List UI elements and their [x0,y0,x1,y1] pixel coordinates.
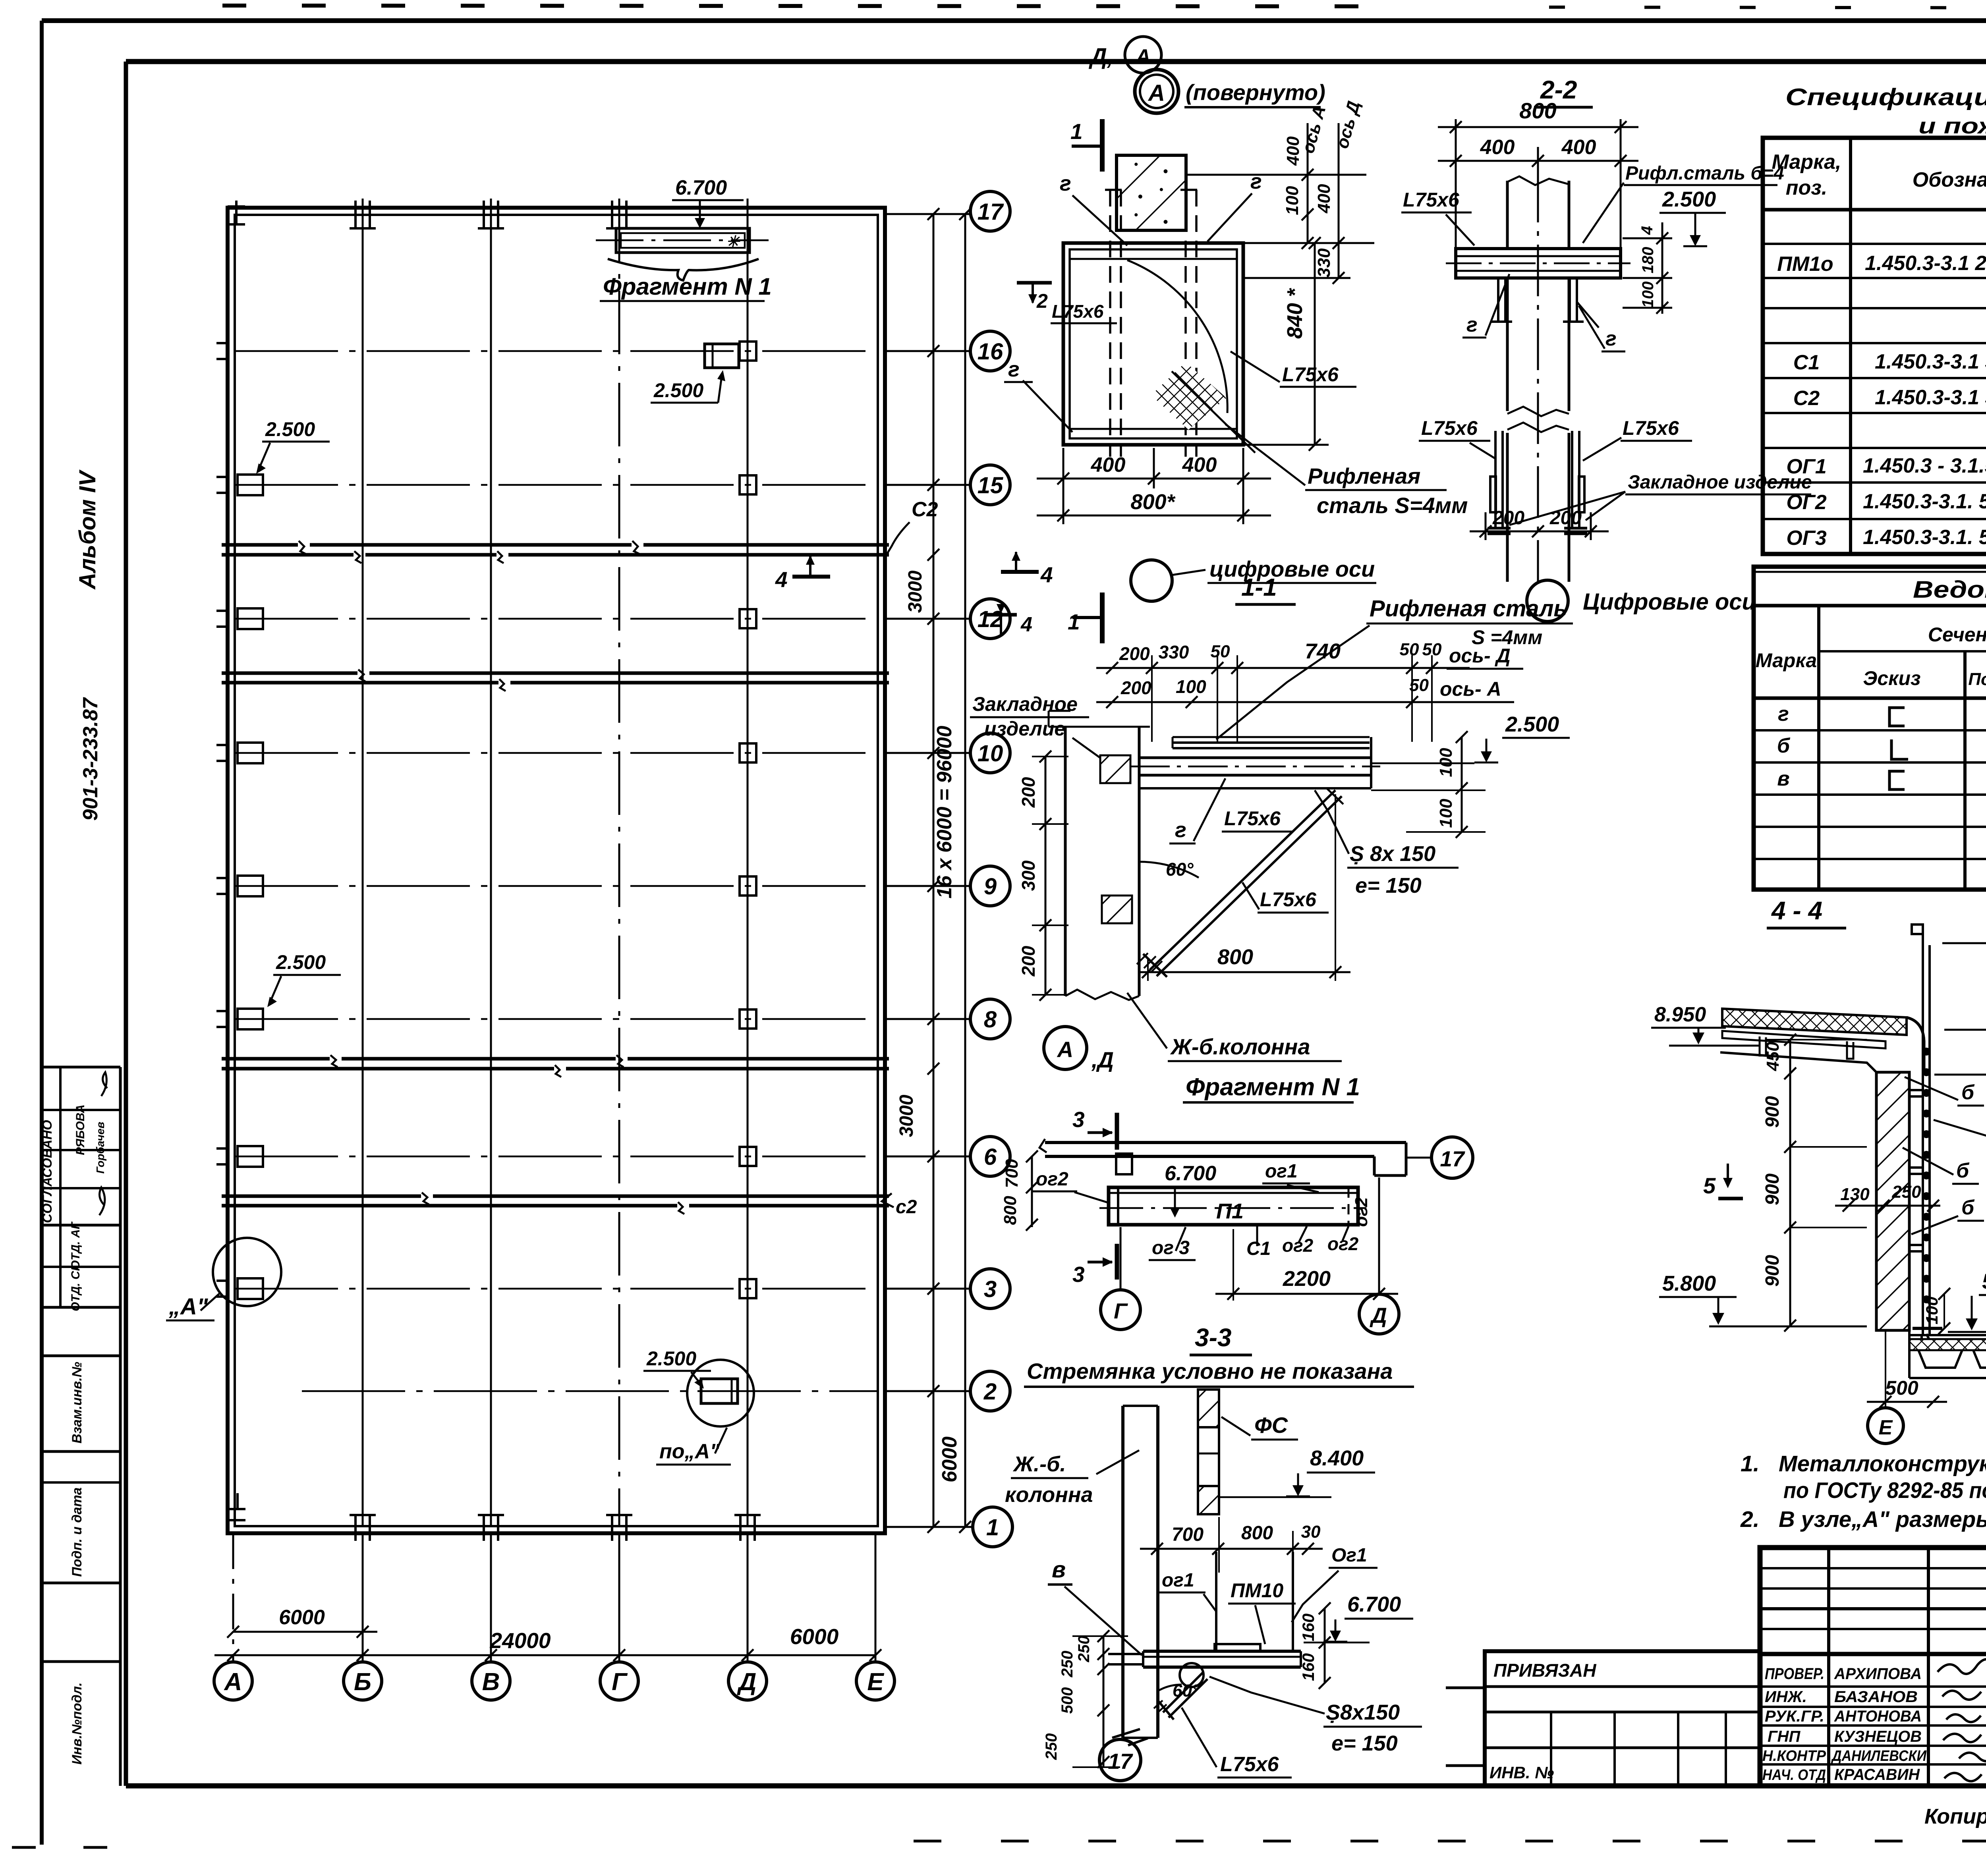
net hatch patch [1151,362,1227,430]
top wall column marks [228,201,632,228]
svg-text:Г: Г [1114,1299,1128,1323]
svg-text:200: 200 [1119,643,1150,664]
svg-text:200: 200 [1549,508,1582,529]
circle 17 fragment [1432,1137,1473,1178]
svg-text:100: 100 [1283,186,1302,215]
svg-text:6000: 6000 [790,1624,839,1649]
S8x150 label 1-1 [1315,790,1459,897]
clamp circle 3-3 [1180,1663,1204,1687]
Jb kolonna label [1127,993,1342,1061]
bottom dim line 24000 [214,1649,881,1661]
svg-text:6000: 6000 [279,1606,325,1629]
svg-text:1.450.3-3.1. 5.1.0.1.0-09: 1.450.3-3.1. 5.1.0.1.0-09 [1863,526,1986,549]
9.100 elevation [1944,967,1986,1030]
svg-text:сталь S=4мм: сталь S=4мм [1317,493,1468,518]
platform 6.700 3-3 [1108,1644,1301,1667]
svg-text:L75х6: L75х6 [1052,301,1104,322]
8.950 elevation [1651,1003,1760,1046]
g labels 2-2 [1462,274,1625,351]
row center lines [235,351,878,1391]
top beam fragment [1039,1139,1432,1175]
svg-text:180: 180 [1639,247,1657,274]
svg-text:Цифровые оси: Цифровые оси [1583,589,1756,615]
strut 3-3 [1154,1673,1207,1720]
riflenaya stal label [1172,371,1468,518]
svg-text:ИНЖ.: ИНЖ. [1765,1688,1807,1706]
dim 2200 [1215,1229,1398,1301]
section mark 4 left [775,555,830,592]
8.400 elevation [1220,1446,1375,1497]
svg-text:Е: Е [1879,1416,1893,1439]
svg-text:Альбом IV: Альбом IV [75,469,100,590]
svg-text:А: А [1057,1037,1073,1062]
svg-text:ПРИВЯЗАН: ПРИВЯЗАН [1493,1660,1596,1681]
svg-text:100: 100 [1922,1297,1941,1324]
svg-text:колонна: колонна [1005,1483,1093,1507]
svg-text:1: 1 [1070,119,1083,144]
svg-text:Копировал:: Копировал: [1924,1805,1986,1828]
svg-text:2200: 2200 [1283,1267,1331,1291]
svg-text:2.500: 2.500 [653,379,703,401]
bottom wall column marks [230,1493,761,1541]
svg-text:б: б [1956,1159,1970,1182]
section 3-3 title [1190,1323,1252,1355]
svg-text:9: 9 [984,874,997,899]
section mark 2 left [1017,283,1117,323]
svg-text:г: г [1466,313,1478,336]
svg-text:1: 1 [1068,610,1080,634]
svg-text:Ог1: Ог1 [1331,1545,1367,1566]
svg-text:(повернуто): (повернуто) [1186,80,1325,105]
svg-text:2.500: 2.500 [1662,187,1716,211]
svg-text:800: 800 [1001,1196,1020,1225]
svg-text:Металлоконструкции покрасить м: Металлоконструкции покрасить масляной кр… [1779,1451,1986,1476]
svg-text:2: 2 [1036,290,1048,312]
svg-text:Д,: Д, [1088,44,1113,69]
ladder foot [1913,1328,1942,1345]
svg-text:3: 3 [1072,1107,1085,1132]
svg-text:ось- Д: ось- Д [1449,645,1511,667]
svg-text:30: 30 [1301,1522,1321,1542]
svg-text:ог2: ог2 [1352,1197,1371,1227]
svg-text:Н.КОНТР: Н.КОНТР [1762,1748,1826,1764]
5.550 elevation [1948,1270,1986,1332]
svg-text:200: 200 [1492,508,1524,529]
svg-text:ОГ1: ОГ1 [1786,455,1826,478]
strut 1-1 [1137,788,1343,977]
svg-text:с2: с2 [896,1197,917,1218]
svg-text:L75х6: L75х6 [1623,417,1679,439]
zakladnoe izdelie 1-1 [970,693,1112,766]
svg-text:С1: С1 [1793,351,1820,374]
svg-text:160: 160 [1299,1614,1318,1641]
band break zigzags [299,541,684,1214]
svg-text:500: 500 [1885,1377,1918,1399]
svg-text:АРХИПОВА: АРХИПОВА [1834,1665,1922,1683]
svg-text:1: 1 [986,1515,999,1540]
svg-text:г: г [1008,357,1020,381]
svg-text:ПРОВЕР.: ПРОВЕР. [1765,1665,1824,1683]
svg-text:Д: Д [1370,1303,1387,1328]
svg-text:6.700: 6.700 [1165,1162,1216,1185]
svg-text:L75х6: L75х6 [1403,189,1460,211]
svg-text:Подп. и дата: Подп. и дата [70,1487,85,1577]
small column on beam [1116,1154,1132,1174]
svg-text:ось- А: ось- А [1440,678,1501,700]
privyazan box [1446,1651,1760,1786]
svg-text:1.450.3-3.1 2.1.1.0.0-37: 1.450.3-3.1 2.1.1.0.0-37 [1865,252,1986,275]
extension lines 1-1 [1152,655,1432,742]
g labels detail A [1004,170,1262,432]
svg-text:200: 200 [1121,677,1151,698]
spec rows [1777,216,1986,551]
svg-text:Фрагмент N 1: Фрагмент N 1 [1186,1073,1360,1101]
svg-text:А: А [1148,80,1165,106]
svg-text:4 - 4: 4 - 4 [1771,896,1822,925]
svg-text:L75х6: L75х6 [1220,1753,1279,1776]
svg-text:2.: 2. [1740,1507,1760,1532]
160 160 dims 3-3 [1319,1602,1331,1689]
2.500 label row8 [267,951,341,1007]
og1 left label 3-3 [1159,1570,1216,1612]
svg-text:6.700: 6.700 [675,176,727,199]
svg-text:2.500: 2.500 [1505,712,1559,736]
svg-text:50: 50 [1211,642,1230,661]
svg-text:2.500: 2.500 [276,951,326,973]
wall 4-4 [1876,1072,1909,1330]
svg-text:цифровые оси: цифровые оси [1209,556,1375,581]
svg-text:ог2: ог2 [1327,1233,1359,1254]
svg-text:500: 500 [1059,1687,1076,1714]
double line bands with breaks [222,545,889,1206]
svg-text:800*: 800* [1130,490,1176,514]
svg-text:КУЗНЕЦОВ: КУЗНЕЦОВ [1834,1728,1922,1745]
svg-text:400: 400 [1091,454,1126,477]
svg-text:Д: Д [737,1668,757,1696]
svg-text:400: 400 [1314,184,1334,214]
svg-text:по„А": по„А" [659,1440,720,1463]
svg-text:В узле„А" размеры со звездочко: В узле„А" размеры со звездочкой уточняют… [1779,1507,1986,1532]
2.500 elev 1-1 [1371,712,1570,763]
spec table title [1785,84,1986,138]
svg-text:ПМ1о: ПМ1о [1777,253,1833,276]
vertical dim line x2350 [927,208,939,1533]
dim row2 1-1 [1096,696,1454,708]
svg-text:1.450.3 - 3.1.5.1.0.1.0-13: 1.450.3 - 3.1.5.1.0.1.0-13 [1863,454,1986,477]
svg-text:840 *: 840 * [1283,288,1307,339]
dims below detail A [1037,448,1271,524]
svg-text:ог1: ог1 [1265,1161,1298,1182]
v label 3-3 [1048,1557,1142,1655]
svg-text:✳: ✳ [726,233,741,251]
hidden post lines [1105,190,1201,457]
svg-text:ГНП: ГНП [1768,1728,1801,1745]
svg-text:8.400: 8.400 [1310,1446,1364,1470]
g / L75x6 labels 1-1 [1169,778,1329,913]
eskiz profile glyphs [1889,708,1908,789]
60 deg arc 1-1 [1139,859,1199,880]
svg-text:200: 200 [1018,777,1039,808]
svg-text:16: 16 [978,339,1003,365]
6.700 platform fragment zone [596,176,772,301]
svg-text:2.500: 2.500 [646,1347,696,1370]
svg-text:300: 300 [1018,860,1039,891]
svg-text:Обозначение: Обозначение [1913,168,1986,191]
D,(A) label top [1088,37,1161,73]
svg-text:б: б [1777,734,1791,757]
svg-text:8: 8 [984,1007,997,1033]
svg-text:ог 3: ог 3 [1152,1237,1190,1258]
center axis dashdot [1537,171,1539,582]
svg-text:Инв.№подл.: Инв.№подл. [70,1682,85,1764]
svg-text:б: б [1961,1081,1975,1104]
svg-text:3: 3 [984,1276,997,1302]
svg-text:10: 10 [978,741,1003,766]
svg-text:Эскиз: Эскиз [1863,667,1920,689]
svg-text:8.950: 8.950 [1654,1003,1706,1026]
svg-text:С2: С2 [1793,387,1820,410]
signature table texts [1762,1665,1927,1783]
left margin column [42,1067,120,1786]
svg-text:Поз.: Поз. [1968,670,1986,689]
svg-text:ОГ2: ОГ2 [1786,491,1826,514]
margin vertical texts [40,469,106,1765]
cifrovye osi circle detail A [1131,556,1376,601]
svg-text:1-1: 1-1 [1241,574,1277,601]
2.500 elevation mark [1660,187,1726,246]
svg-text:ИНВ. №: ИНВ. № [1489,1763,1554,1782]
svg-text:15: 15 [978,473,1003,498]
svg-text:17: 17 [978,199,1004,225]
svg-text:ОТД. АГ: ОТД. АГ [69,1221,82,1270]
lower angles 2-2 [1488,431,1587,534]
svg-text:5.800: 5.800 [1662,1272,1716,1295]
svg-text:П1: П1 [1216,1199,1244,1223]
svg-text:400: 400 [1480,136,1515,159]
svg-text:С2: С2 [912,498,938,521]
column with break 2-2 [1507,278,1569,582]
svg-text:700: 700 [1172,1524,1204,1545]
zakladnoe izdelie label [1509,472,1812,525]
vertical dim line x2430 overall [959,208,971,1533]
svg-text:б: б [1961,1196,1975,1219]
svg-text:e= 150: e= 150 [1331,1731,1398,1755]
svg-text:700: 700 [1002,1159,1022,1188]
svg-text:Спецификация к схеме распол: Спецификация к схеме расположения площад… [1785,84,1986,110]
2.500 label row15 [256,418,330,474]
plan walls [228,208,885,1533]
svg-text:Ṣ8х150: Ṣ8х150 [1326,1700,1400,1724]
left dim column 4-4 [1767,1034,1867,1332]
og1 right label 3-3 [1292,1545,1377,1622]
detail 2-2 title [1534,75,1593,107]
notes [1740,1451,1986,1532]
10.150 elevation [1942,880,1986,943]
130 250 dims 4-4 [1835,1200,1940,1212]
left dims 200/300/200 1-1 [1032,751,1068,1001]
svg-text:Сечение: Сечение [1928,623,1986,646]
svg-text:100: 100 [1436,748,1456,777]
svg-text:3000: 3000 [905,570,926,613]
L75x6 right label [1231,351,1356,387]
riflenaya stal label 1-1 [1216,596,1573,739]
svg-text:СОГЛАСОВАНО: СОГЛАСОВАНО [40,1120,54,1223]
svg-text:12: 12 [978,606,1003,632]
svg-text:Стремянка условно не показана: Стремянка условно не показана [1027,1359,1393,1384]
fragment title [1183,1073,1360,1102]
svg-text:5.550: 5.550 [1982,1270,1986,1293]
subtitle 3-3 [1024,1359,1414,1387]
svg-text:1.450.3-3.1 3.1.0.1,0-02: 1.450.3-3.1 3.1.0.1,0-02 [1875,350,1986,373]
ladder brackets [1909,1090,1923,1251]
svg-text:400: 400 [1561,136,1596,159]
spec header texts [1772,151,1986,199]
svg-text:e= 150: e= 150 [1355,874,1422,897]
A,D circle 1-1 [1044,1027,1114,1072]
svg-text:Ведомость элементов: Ведомость элементов [1913,576,1986,603]
svg-text:РУК.ГР.: РУК.ГР. [1765,1708,1824,1725]
svg-text:60°: 60° [1173,1681,1199,1700]
2.500 platform at D row16 [651,344,739,403]
L75x6 label 3-3 [1182,1708,1292,1778]
S8x150 label 3-3 [1209,1677,1422,1755]
svg-text:РЯБОВА: РЯБОВА [74,1104,87,1155]
svg-text:250: 250 [1891,1182,1921,1202]
upper angle cleats [1491,278,1599,328]
svg-text:100: 100 [1436,799,1456,828]
svg-text:в: в [1777,767,1789,790]
svg-text:250: 250 [1043,1733,1060,1760]
dims 200 200 [1470,512,1609,540]
svg-text:Марка,: Марка, [1772,151,1841,174]
svg-text:ог1: ог1 [1162,1570,1194,1591]
svg-text:4: 4 [775,567,788,592]
section 5 marks [1703,1164,1743,1199]
svg-text:330: 330 [1314,248,1334,278]
cifrovye osi circle 2-2 [1527,580,1756,621]
svg-text:250: 250 [1075,1636,1093,1663]
svg-text:100: 100 [1176,676,1206,697]
platform band 2-2 [1446,249,1631,278]
column 1-1 [1049,711,1150,1000]
svg-text:,Д: ,Д [1091,1047,1114,1072]
L75x6 left label [1401,189,1474,245]
svg-text:130: 130 [1840,1185,1870,1204]
circled row numbers [970,191,1012,1547]
svg-text:L75х6: L75х6 [1260,888,1317,911]
dim row1 1-1 [1096,662,1470,674]
vedomost table [1754,567,1986,890]
svg-text:4: 4 [1040,562,1053,587]
bottom floor slab 4-4 [1909,1330,1986,1378]
svg-text:ОГ3: ОГ3 [1786,527,1826,550]
svg-text:901-3-233.87: 901-3-233.87 [79,697,102,820]
svg-text:Рифл.сталь б=4: Рифл.сталь б=4 [1625,163,1784,184]
svg-text:А: А [224,1668,242,1696]
svg-text:ПМ10: ПМ10 [1231,1579,1283,1602]
svg-text:50: 50 [1400,640,1419,659]
svg-text:А: А [1135,45,1151,68]
section mark 4 bottom-left [985,604,1032,636]
svg-text:250: 250 [1059,1651,1076,1678]
platform plan square [1063,243,1243,445]
section mark 4 right [1001,551,1053,587]
axis G vertical [618,199,620,1526]
axis D vertical [747,199,749,1526]
5.800 elevation [1659,1272,1867,1326]
svg-text:800: 800 [1241,1523,1273,1544]
og3 label [1149,1227,1196,1260]
svg-text:изделие: изделие [984,718,1065,740]
og1 top label [1262,1161,1319,1192]
bottom dim 6000 A-B [227,1626,377,1638]
svg-text:900: 900 [1762,1173,1783,1205]
svg-text:6.700: 6.700 [1347,1592,1401,1616]
svg-text:Рифленая: Рифленая [1308,463,1420,488]
svg-text:Е: Е [867,1668,884,1696]
svg-text:L75х6: L75х6 [1421,417,1478,439]
svg-text:в: в [1052,1557,1066,1583]
FS element [1198,1390,1219,1514]
svg-text:2: 2 [983,1379,997,1405]
svg-text:и пожарной лестницы .: и пожарной лестницы . [1918,113,1986,138]
section mark 3 top [1072,1107,1117,1150]
title block outer [1760,1548,1986,1786]
po A platform row2 [643,1347,754,1465]
ladder 4-4 [1912,924,1930,1334]
section mark 3 bottom [1072,1244,1117,1287]
svg-text:900: 900 [1762,1255,1783,1287]
svg-text:г: г [1605,327,1617,350]
section 4-4 title [1767,896,1846,928]
svg-text:740: 740 [1305,639,1341,663]
svg-text:ДАНИЛЕВСКИ: ДАНИЛЕВСКИ [1831,1748,1926,1764]
svg-text:L75х6: L75х6 [1224,807,1281,830]
embedded plates 1-1 [1100,755,1130,783]
svg-text:Ж-б.колонна: Ж-б.колонна [1170,1034,1310,1059]
right small dims 2-2 [1623,222,1672,314]
6.700 elevation right 3-3 [1304,1592,1413,1642]
svg-text:900: 900 [1762,1096,1783,1128]
A-node circle row3 [166,1238,281,1320]
spec table grid [1763,138,1986,554]
axis extensions below plan [233,1533,875,1662]
svg-text:16 х 6000 = 96000: 16 х 6000 = 96000 [933,726,956,898]
detail A header circle [1135,69,1325,113]
svg-text:24000: 24000 [490,1628,551,1653]
svg-text:Ж.-б.: Ж.-б. [1012,1452,1066,1476]
svg-text:L75х6: L75х6 [1282,363,1339,386]
rails 3-3 [1216,1552,1293,1651]
platform P1 [1099,1187,1366,1225]
svg-text:КРАСАВИН: КРАСАВИН [1834,1766,1920,1783]
svg-text:3: 3 [1072,1262,1085,1287]
svg-text:Б: Б [354,1668,371,1696]
row stubs to circles [885,214,973,1527]
PM10 label [1228,1579,1296,1644]
column 3-3 [1112,1406,1158,1738]
svg-text:г: г [1250,170,1262,193]
svg-text:Марка: Марка [1756,649,1817,672]
rifl stal b=4 label [1583,163,1784,243]
svg-text:г: г [1175,818,1186,842]
svg-text:Горбачев: Горбачев [94,1122,106,1174]
roof slab [1720,1009,1924,1073]
svg-text:17: 17 [1440,1146,1465,1171]
jb kolonna label 3-3 [1005,1450,1139,1507]
svg-text:400: 400 [1182,454,1217,477]
svg-text:Ṣ 8х 150: Ṣ 8х 150 [1350,842,1435,866]
